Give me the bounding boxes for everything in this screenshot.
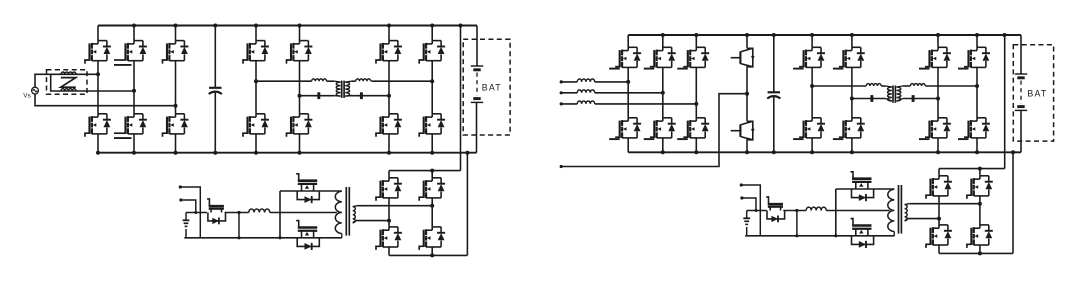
svg-text:Vs: Vs [23,92,31,99]
svg-text:BAT: BAT [1027,89,1047,99]
svg-text:BAT: BAT [482,83,502,93]
